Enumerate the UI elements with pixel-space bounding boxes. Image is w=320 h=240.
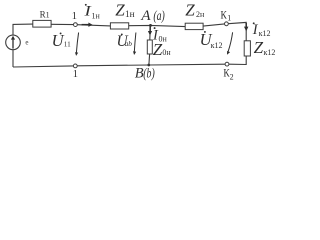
- svg-text:Z: Z: [115, 1, 125, 20]
- current arrow I1n: [82, 23, 93, 27]
- svg-text:Z: Z: [254, 38, 264, 57]
- label K1: [221, 10, 232, 23]
- wire Z2n to node K1: [203, 24, 224, 26]
- label Z0n: [153, 40, 172, 59]
- svg-text:1: 1: [73, 69, 78, 80]
- label I0n: [152, 27, 168, 43]
- bottom wire node 1 to left corner: [13, 66, 73, 67]
- node A junction dot: [149, 24, 152, 27]
- voltage U11 with arrow: [52, 31, 79, 56]
- voltage Uk12 with arrow: [200, 30, 233, 55]
- bottom wire B to node 1 bottom: [77, 64, 149, 67]
- svg-text:U: U: [52, 31, 65, 50]
- svg-text:1: 1: [72, 11, 77, 22]
- label I1n: [83, 4, 100, 21]
- bottom wire K2 to junction B: [149, 63, 225, 66]
- node K2: [225, 62, 229, 66]
- node 1 (bottom): [73, 64, 77, 68]
- svg-text:0н: 0н: [162, 48, 171, 57]
- bottom wire right segment corner to K2: [225, 63, 229, 65]
- svg-text:A: A: [140, 8, 151, 24]
- svg-text:Z: Z: [153, 40, 163, 59]
- svg-text:ab: ab: [125, 39, 133, 48]
- label Ik12: [252, 22, 271, 38]
- svg-text:к12: к12: [259, 29, 271, 38]
- node K1: [225, 22, 229, 26]
- wire Z0n to bottom junction B: [148, 54, 151, 65]
- svg-text:2н: 2н: [196, 10, 205, 19]
- svg-text:1н: 1н: [92, 11, 101, 20]
- node 1 (top): [74, 23, 78, 27]
- svg-text:R1: R1: [40, 10, 50, 20]
- svg-text:(b): (b): [143, 67, 155, 82]
- svg-text:(a): (a): [153, 9, 165, 24]
- label K2: [223, 68, 233, 82]
- resistor R1: [33, 20, 51, 27]
- svg-text:e: e: [25, 38, 28, 46]
- current arrow I0n: [148, 26, 152, 35]
- wire Z1n to Z2n through node A: [129, 25, 186, 26]
- label Zk12: [254, 38, 276, 57]
- impedance Z0n: [147, 40, 152, 54]
- wire node A down to Z0n: [149, 25, 152, 40]
- wire K1 to top-right corner and down: [228, 22, 246, 40]
- wire R1 to node 1: [51, 23, 73, 25]
- label Z2n: [185, 1, 205, 20]
- svg-text:к12: к12: [211, 41, 223, 50]
- junction dot B: [147, 64, 150, 67]
- current source e: [6, 35, 21, 50]
- current arrow Ik12: [244, 23, 248, 31]
- label Z1n: [115, 1, 134, 21]
- wire node 1 to Z1n: [77, 25, 110, 26]
- wire top-left from source to R1: [13, 24, 33, 35]
- impedance Z2n: [185, 23, 203, 29]
- impedance Zk12: [244, 41, 250, 56]
- svg-text:К: К: [221, 10, 227, 22]
- svg-text:к12: к12: [264, 48, 276, 57]
- voltage Uab with arrow: [117, 33, 137, 56]
- svg-text:Z: Z: [185, 1, 195, 20]
- svg-text:2: 2: [230, 72, 234, 81]
- svg-text:1: 1: [227, 13, 231, 22]
- wire Zk12 to bottom-right corner: [229, 56, 246, 65]
- impedance Z1n: [110, 23, 128, 29]
- svg-text:1н: 1н: [125, 10, 135, 20]
- wire left vertical below source: [12, 50, 14, 67]
- svg-text:11: 11: [64, 40, 71, 48]
